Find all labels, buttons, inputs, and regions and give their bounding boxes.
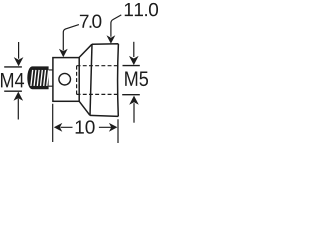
M4 down arrowhead	[14, 57, 24, 66]
cone-cylinder junction	[90, 44, 92, 115]
M4 up arrow shaft	[17, 99, 19, 120]
cone flare	[79, 44, 92, 115]
M4 up arrowhead	[13, 92, 23, 101]
M5 down arrow shaft	[133, 42, 135, 57]
11.0 leader	[111, 15, 121, 37]
10 extension lines	[53, 104, 118, 143]
threaded stud M4	[27, 66, 48, 89]
M5 up arrow shaft	[133, 103, 135, 123]
arrowheads	[13, 35, 138, 131]
big cylinder 11.0	[90, 44, 118, 117]
10 right arrowhead	[109, 123, 118, 132]
M4 down arrow shaft	[18, 42, 20, 59]
7.0 leader arrowhead	[59, 49, 68, 58]
M5 down arrowhead	[129, 56, 139, 65]
M5 ticks	[122, 66, 140, 95]
10 dimension line	[61, 126, 112, 128]
M5 up arrowhead	[129, 96, 139, 105]
label 10	[76, 120, 95, 133]
label 7.0	[80, 15, 102, 28]
10 left arrowhead	[54, 123, 63, 132]
hidden thread lines M5	[77, 66, 119, 95]
cross hole circle	[59, 73, 71, 85]
label M5	[125, 71, 148, 86]
dimension + leader lines	[4, 15, 140, 143]
M4 ticks	[4, 67, 22, 91]
7.0 leader	[63, 25, 79, 51]
label 11.0	[125, 3, 158, 16]
11.0 leader arrowhead	[107, 35, 116, 44]
label M4	[1, 73, 24, 87]
stud neck	[49, 70, 53, 86]
body 7.0 cylinder	[53, 58, 79, 102]
